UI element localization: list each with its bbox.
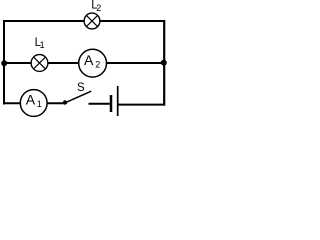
svg-text:2: 2 [96, 3, 101, 13]
svg-text:S: S [77, 82, 85, 94]
svg-text:A: A [26, 91, 36, 107]
svg-text:A: A [84, 52, 94, 68]
svg-text:2: 2 [95, 60, 100, 70]
svg-text:1: 1 [37, 99, 42, 109]
svg-text:1: 1 [40, 40, 45, 50]
